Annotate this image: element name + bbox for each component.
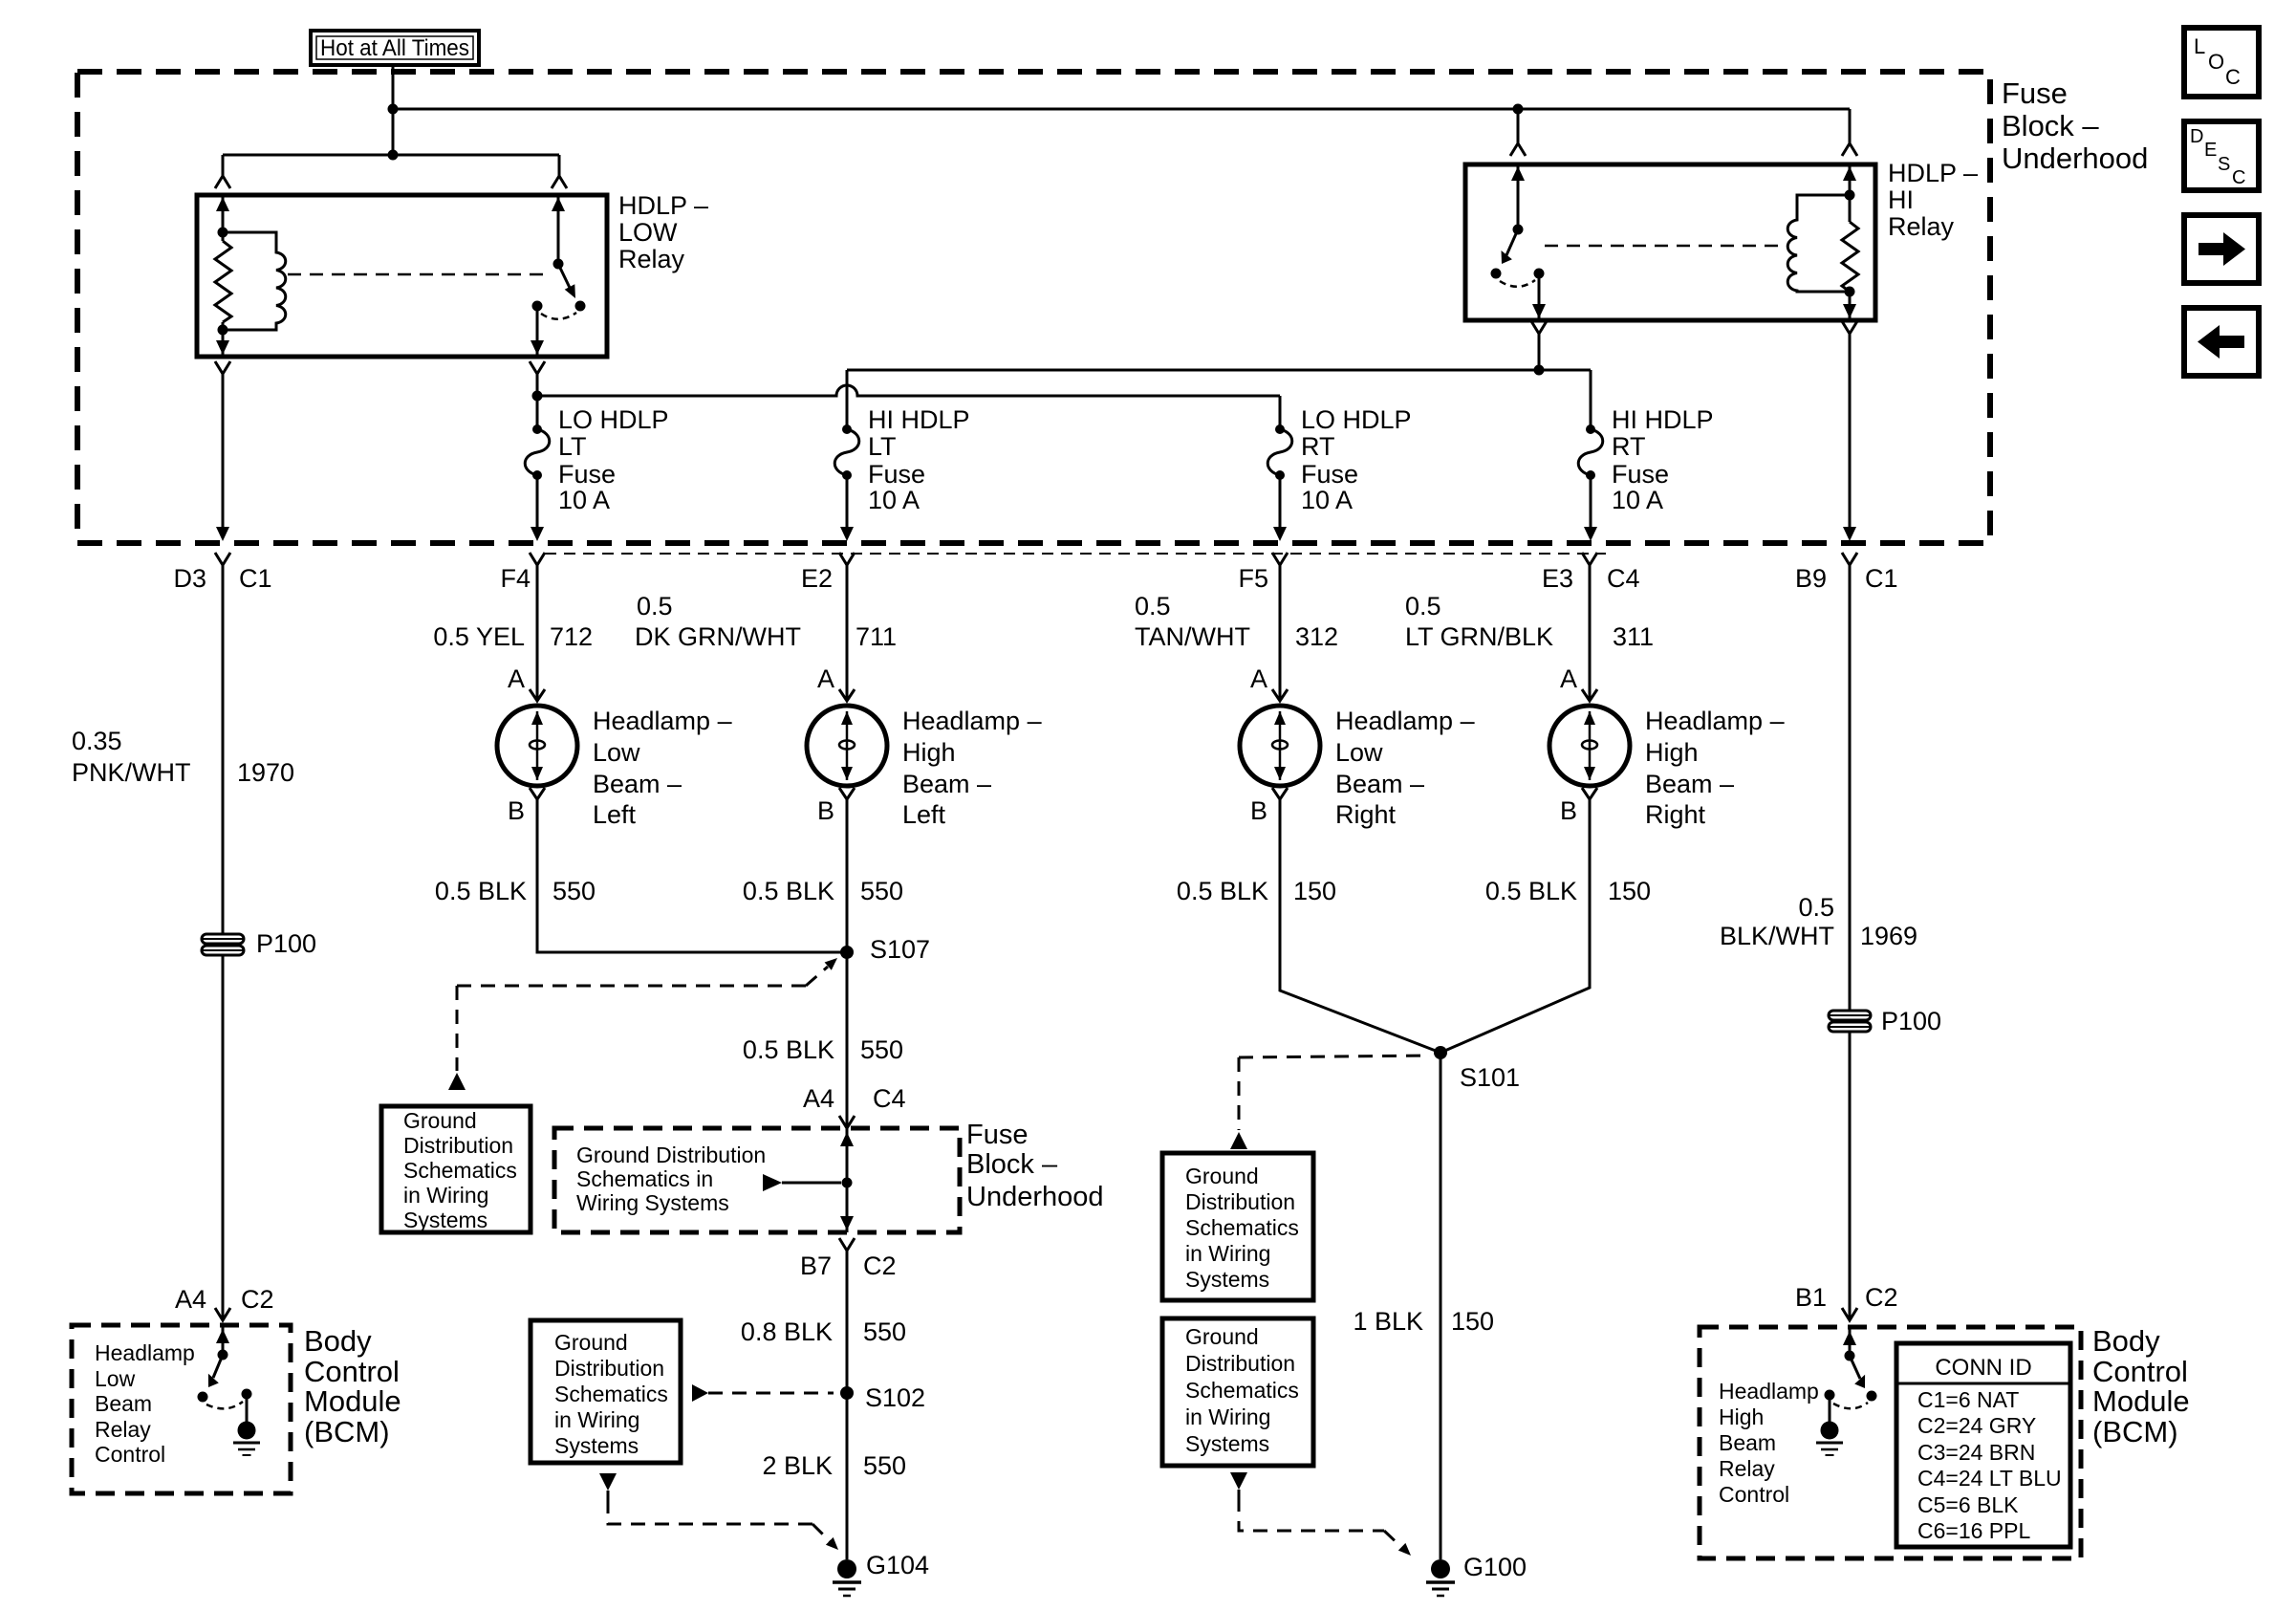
svg-text:A4: A4 [803,1084,834,1113]
lamp headlamp high beam right [1549,689,1630,799]
svg-text:LT GRN/BLK: LT GRN/BLK [1405,622,1553,651]
svg-text:Headlamp –: Headlamp – [1335,707,1475,735]
svg-text:0.8 BLK: 0.8 BLK [741,1317,833,1346]
svg-text:1970: 1970 [237,758,294,787]
ground post BCM right [1829,1395,1831,1422]
svg-text:10 A: 10 A [1612,486,1663,514]
wire low relay coil drop [222,155,225,176]
svg-text:Fuse: Fuse [1301,460,1358,489]
wire low relay coil leg upper [222,195,225,241]
connector chevron pin F4 [530,553,545,565]
switch throw arc BCM right [1833,1403,1868,1408]
svg-text:in Wiring: in Wiring [554,1407,639,1432]
svg-text:Body: Body [2092,1324,2160,1358]
svg-text:Ground: Ground [1185,1164,1259,1188]
svg-text:Ground: Ground [1185,1324,1259,1349]
actuator dashed link hi relay [1545,245,1786,248]
svg-text:BLK/WHT: BLK/WHT [1720,922,1834,950]
wire E2 to lamp A [846,565,849,701]
node hi relay coil top [1845,190,1855,201]
note box ground distribution 3 [1162,1153,1313,1300]
svg-text:10 A: 10 A [1301,486,1353,514]
svg-text:C4: C4 [1607,564,1640,593]
pin arrow out of hi relay switch [1532,304,1546,318]
connector chevron below hi relay switch leg [1531,321,1547,334]
connector chevron pin D3-C1 [215,553,230,565]
svg-text:10 A: 10 A [868,486,920,514]
wire low beam feed to fuse [536,374,539,429]
BCM left dashed box [72,1325,291,1493]
svg-text:Systems: Systems [1185,1431,1269,1456]
pin arrow into hi relay switch [1511,166,1525,181]
svg-text:DK GRN/WHT: DK GRN/WHT [635,622,801,651]
svg-text:Schematics: Schematics [403,1158,517,1183]
svg-text:0.5: 0.5 [637,592,673,620]
svg-text:P100: P100 [256,929,316,958]
wire lamp3 B ground run [1280,799,1440,1053]
svg-text:B: B [1560,796,1577,825]
wire B9 branch lower [1849,1032,1852,1320]
connector chevron hi relay coil pin [1842,143,1857,156]
connector chevron below hi relay coil leg [1842,321,1857,334]
connector chevron pin B9-C1 [1842,553,1857,565]
node lower fuse block tap [842,1178,853,1188]
connector chevron low relay switch pin [552,176,567,188]
connector P100 left [202,934,244,955]
pin arrow into BCM right [1843,1331,1856,1345]
svg-text:in Wiring: in Wiring [403,1183,488,1208]
svg-text:Distribution: Distribution [1185,1189,1295,1214]
connector chevron below low relay coil leg [215,361,230,374]
switch output contact low relay [532,301,543,312]
svg-text:RT: RT [1301,432,1335,461]
wire hi hdlp crossfeed horizontal [847,369,1591,372]
connector P100 right [1829,1011,1871,1032]
svg-text:in Wiring: in Wiring [1185,1241,1270,1266]
chassis ground BCM right [1816,1422,1843,1456]
svg-text:712: 712 [550,622,593,651]
svg-text:Control: Control [304,1355,400,1388]
svg-text:Block –: Block – [2002,109,2099,142]
svg-text:Fuse: Fuse [1612,460,1669,489]
svg-text:Systems: Systems [554,1433,639,1458]
svg-text:Beam: Beam [95,1391,152,1416]
resistor hi relay [1842,222,1858,292]
svg-text:Beam –: Beam – [1645,770,1734,798]
leader dashed S101 to note box 3 [1239,1056,1430,1057]
svg-text:C: C [2232,167,2245,188]
svg-text:150: 150 [1451,1307,1494,1336]
svg-text:Left: Left [593,800,637,829]
svg-text:B: B [508,796,525,825]
leader dashed S107 to note box [806,967,828,986]
svg-text:LT: LT [558,432,587,461]
node hi relay coil bottom [1845,287,1855,297]
svg-text:Underhood: Underhood [2002,142,2148,175]
svg-text:0.5 BLK: 0.5 BLK [435,877,527,905]
connector chevron B7-C2 [839,1238,855,1251]
svg-text:S: S [2218,154,2230,175]
svg-text:312: 312 [1295,622,1338,651]
leader dashed note2 to G104 [599,1473,617,1491]
svg-text:Low: Low [593,738,640,767]
connector chevron A4-C4 [839,1116,855,1128]
fuse LO HDLP RT 10A [1267,425,1292,541]
svg-text:Block –: Block – [966,1149,1058,1180]
wire D3 feed down to connector [222,374,225,529]
wire hi relay switch output [1538,273,1541,318]
svg-text:Relay: Relay [618,245,685,273]
splice S102 [840,1386,854,1400]
lamp headlamp high beam left [807,689,887,799]
inductor coil low relay [223,232,286,330]
svg-text:C3=24 BRN: C3=24 BRN [1917,1440,2035,1465]
svg-text:D: D [2190,126,2203,147]
svg-text:C1: C1 [1865,564,1898,593]
pin arrow into lower fuse block [840,1132,854,1146]
svg-text:Systems: Systems [403,1208,487,1232]
wire lamp1 B ground run [537,799,847,952]
actuator dashed link low relay [288,273,549,276]
switch throw arc hi relay [1500,280,1535,287]
svg-text:Low: Low [95,1366,136,1391]
svg-text:0.5 BLK: 0.5 BLK [1485,877,1577,905]
CONN ID header line [1896,1382,2070,1385]
wire hi relay coil drop [1849,109,1852,143]
wire hi relay switch input [1517,164,1520,229]
inductor coil hi relay [1787,195,1850,292]
note box ground distribution 2 [531,1320,681,1463]
svg-text:Distribution: Distribution [554,1356,664,1381]
forward arrow icon [2199,232,2245,266]
svg-text:C: C [2225,65,2241,89]
svg-text:Fuse: Fuse [868,460,925,489]
node hi relay switch feed junction [1513,104,1524,115]
svg-text:B: B [1250,796,1267,825]
wire hi hdlp rt fuse drop [1590,370,1592,429]
wire lo hdlp crossfeed with hop [537,385,1280,396]
svg-text:A: A [1250,664,1267,693]
pin arrow out of low relay switch [531,340,544,355]
svg-text:F5: F5 [1238,564,1268,593]
svg-text:Headlamp: Headlamp [95,1340,195,1365]
wire BCM right switch input [1849,1327,1852,1356]
svg-text:C2=24 GRY: C2=24 GRY [1917,1413,2036,1438]
svg-text:F4: F4 [500,564,531,593]
switch ground contact BCM left [242,1389,252,1400]
svg-text:High: High [1645,738,1699,767]
pin arrow into BCM left [216,1329,229,1343]
svg-text:Module: Module [304,1384,401,1418]
switch thrown contact hi relay [1491,269,1502,279]
wire lamp2 B ground run [846,799,849,1128]
svg-text:LOW: LOW [618,218,678,247]
svg-text:Schematics: Schematics [554,1382,668,1406]
svg-text:C2: C2 [241,1285,274,1314]
svg-text:0.5 BLK: 0.5 BLK [743,1035,834,1064]
svg-text:PNK/WHT: PNK/WHT [72,758,191,787]
svg-text:Headlamp: Headlamp [1719,1379,1819,1404]
switch pivot hi relay [1513,225,1524,235]
svg-text:Wiring Systems: Wiring Systems [576,1190,729,1215]
svg-text:C2: C2 [1865,1283,1898,1312]
wire BCM left switch input [222,1325,225,1355]
pin arrow into hi relay coil leg [1843,166,1856,181]
back arrow icon [2198,325,2244,359]
svg-text:Control: Control [2092,1355,2188,1388]
note box ground distribution 1 [381,1106,531,1232]
svg-text:Relay: Relay [1888,212,1955,241]
svg-text:Schematics: Schematics [1185,1215,1299,1240]
svg-text:High: High [902,738,956,767]
svg-text:0.5: 0.5 [1135,592,1171,620]
splice S107 [840,946,854,959]
switch pivot low relay [553,259,564,270]
svg-text:Beam –: Beam – [1335,770,1424,798]
svg-text:C6=16 PPL: C6=16 PPL [1917,1518,2030,1543]
wire low relay feed horizontal [223,154,559,157]
svg-text:A: A [1560,664,1577,693]
switch throw arc low relay [541,313,576,319]
fuse block underhood outer dashed box [77,72,1990,543]
svg-text:HDLP –: HDLP – [618,191,708,220]
svg-text:LO HDLP: LO HDLP [558,405,669,434]
svg-text:Body: Body [304,1324,372,1358]
wire B9 branch upper [1849,565,1852,1011]
switch thrown contact BCM left [198,1392,208,1403]
svg-text:Module: Module [2092,1384,2190,1418]
svg-text:0.35: 0.35 [72,727,122,755]
svg-text:in Wiring: in Wiring [1185,1404,1270,1429]
BCM right dashed box [1700,1327,2081,1558]
wire through lower fuse block [846,1128,849,1232]
svg-text:Schematics: Schematics [1185,1378,1299,1403]
DESC icon box [2184,121,2259,190]
svg-text:Beam: Beam [1719,1430,1776,1455]
pin arrow out of lower fuse block [840,1216,854,1230]
lamp headlamp low beam right [1240,689,1320,799]
svg-text:C1=6 NAT: C1=6 NAT [1917,1387,2019,1412]
svg-text:Ground: Ground [554,1330,628,1355]
wire low relay switch input [557,195,560,264]
svg-text:Relay: Relay [95,1417,151,1442]
svg-text:E3: E3 [1542,564,1573,593]
svg-text:Ground Distribution: Ground Distribution [576,1143,766,1167]
svg-text:311: 311 [1613,622,1654,651]
svg-text:0.5 BLK: 0.5 BLK [1177,877,1268,905]
Hot at All Times box [311,31,479,65]
svg-text:150: 150 [1608,877,1651,905]
leader dashed S102 note [692,1384,708,1402]
svg-text:A: A [508,664,525,693]
svg-text:550: 550 [860,1035,903,1064]
svg-text:S101: S101 [1460,1063,1520,1092]
fuse HI HDLP RT 10A [1578,425,1603,541]
svg-text:L: L [2194,34,2205,58]
svg-text:550: 550 [863,1317,906,1346]
splice S101 [1434,1046,1447,1059]
svg-text:Fuse: Fuse [558,460,616,489]
svg-text:Schematics in: Schematics in [576,1166,713,1191]
svg-text:Left: Left [902,800,946,829]
connector chevron pin E2 [839,553,855,565]
svg-text:Beam –: Beam – [593,770,682,798]
svg-text:E: E [2204,140,2217,161]
switch pivot BCM right [1845,1351,1855,1361]
back arrow icon box [2184,308,2259,376]
leader arrow lower fuse block [763,1174,782,1191]
svg-text:Relay: Relay [1719,1456,1775,1481]
svg-text:550: 550 [863,1451,906,1480]
resistor low relay [215,241,231,322]
connector chevron B1-C2 [1842,1308,1857,1320]
relay HDLP-HI box [1465,164,1875,320]
svg-text:Headlamp –: Headlamp – [593,707,732,735]
node low relay feed junction [388,150,399,161]
wire hi relay coil leg lower [1849,292,1852,318]
wire F5 to lamp A [1279,565,1282,701]
svg-text:Right: Right [1335,800,1397,829]
svg-text:C2: C2 [863,1252,897,1280]
fuse block underhood lower dashed box [554,1128,960,1232]
wire low relay coil leg lower [222,322,225,355]
svg-text:B: B [817,796,834,825]
svg-text:711: 711 [856,622,897,651]
node top feed junction [388,104,399,115]
wire hi beam feed down [1538,334,1541,370]
connector chevron hi relay switch pin [1510,143,1526,156]
svg-text:C5=6 BLK: C5=6 BLK [1917,1492,2019,1517]
svg-text:C1: C1 [239,564,272,593]
svg-text:Low: Low [1335,738,1383,767]
svg-text:B7: B7 [800,1252,832,1280]
node low relay coil top [218,228,228,238]
svg-text:S107: S107 [870,935,930,964]
chassis ground BCM left [233,1422,260,1456]
svg-text:A4: A4 [175,1285,206,1314]
svg-text:(BCM): (BCM) [304,1415,390,1448]
ground G100 [1426,1559,1455,1596]
svg-text:G100: G100 [1463,1553,1527,1581]
svg-text:Fuse: Fuse [966,1120,1028,1150]
svg-text:Right: Right [1645,800,1706,829]
svg-text:150: 150 [1293,877,1336,905]
switch thrown contact low relay [575,301,586,312]
svg-text:HDLP –: HDLP – [1888,159,1978,187]
CONN ID table box [1896,1343,2070,1547]
svg-text:0.5: 0.5 [1798,893,1834,922]
svg-text:Control: Control [1719,1482,1789,1507]
wire hi hdlp lt fuse drop [846,370,849,429]
pin arrow out of low relay coil leg [216,340,229,355]
forward arrow icon box [2184,215,2259,283]
svg-text:Fuse: Fuse [2002,76,2068,110]
wire low relay switch drop [558,155,561,176]
wire lo hdlp rt fuse drop [1279,396,1282,429]
wire hi relay coil leg upper [1849,164,1852,222]
wire hot feed vertical [392,65,395,155]
svg-text:Headlamp –: Headlamp – [902,707,1042,735]
svg-text:G104: G104 [866,1551,929,1579]
svg-text:1 BLK: 1 BLK [1353,1307,1423,1336]
connector C4 thin dashed line [545,553,1606,555]
ground G104 [833,1559,861,1596]
svg-text:C4: C4 [873,1084,906,1113]
pin arrow into low relay coil leg [216,197,229,211]
svg-text:E2: E2 [801,564,833,593]
node hi hdlp crossfeed junction [1534,365,1545,376]
connector chevron below low relay switch leg [530,361,545,374]
wire S101 to G100 [1440,1053,1442,1559]
switch throw arc BCM left [206,1402,243,1408]
svg-text:2 BLK: 2 BLK [762,1451,833,1480]
svg-text:0.5: 0.5 [1405,592,1441,620]
svg-text:Ground: Ground [403,1108,477,1133]
relay HDLP-LOW box [197,195,607,357]
pin arrow into low relay switch [552,197,565,211]
svg-text:Headlamp –: Headlamp – [1645,707,1785,735]
svg-text:D3: D3 [173,564,206,593]
svg-text:RT: RT [1612,432,1646,461]
note box ground distribution 4 [1162,1318,1313,1466]
svg-text:TAN/WHT: TAN/WHT [1135,622,1250,651]
svg-text:HI HDLP: HI HDLP [868,405,970,434]
switch pivot BCM left [218,1350,228,1361]
node lo hdlp crossfeed junction [532,391,543,402]
switch thrown contact BCM right [1867,1391,1877,1402]
switch ground contact BCM right [1825,1390,1835,1401]
switch arm BCM right [1850,1356,1860,1379]
svg-text:Beam –: Beam – [902,770,991,798]
pin arrow B9 at fuse block edge [1843,527,1856,541]
connector chevron low relay coil pin [215,176,230,188]
svg-text:(BCM): (BCM) [2092,1415,2178,1448]
svg-text:O: O [2208,50,2224,74]
svg-text:0.5 BLK: 0.5 BLK [743,877,834,905]
svg-text:P100: P100 [1881,1007,1941,1035]
svg-text:550: 550 [552,877,596,905]
fuse LO HDLP LT 10A [525,425,550,541]
svg-text:0.5 YEL: 0.5 YEL [433,622,525,651]
svg-text:CONN ID: CONN ID [1935,1355,2031,1381]
connector chevron pin F5 [1272,553,1288,565]
svg-text:1969: 1969 [1860,922,1917,950]
switch arm low relay [558,264,571,290]
svg-text:S102: S102 [865,1383,925,1412]
svg-text:Underhood: Underhood [966,1182,1104,1212]
LOC icon box [2184,28,2259,97]
svg-text:LT: LT [868,432,897,461]
svg-text:B9: B9 [1795,564,1827,593]
connector chevron pin E3-C4 [1582,553,1597,565]
fuse HI HDLP LT 10A [834,425,859,541]
wire top feed horizontal to HI relay [393,108,1850,111]
svg-text:10 A: 10 A [558,486,610,514]
wire hi relay switch drop [1517,109,1520,143]
wire lamp4 B ground run [1440,799,1590,1053]
svg-text:Control: Control [95,1442,165,1467]
svg-text:B1: B1 [1795,1283,1827,1312]
wire B7 to G104 [846,1251,849,1559]
leader dashed note4 to G100 [1230,1472,1247,1490]
svg-text:HI HDLP: HI HDLP [1612,405,1714,434]
svg-text:Systems: Systems [1185,1267,1269,1292]
wire F4 to lamp A [536,565,539,701]
ground post BCM left [246,1394,249,1422]
wire low relay switch output [536,306,539,355]
svg-text:LO HDLP: LO HDLP [1301,405,1412,434]
switch output contact hi relay [1534,269,1545,279]
